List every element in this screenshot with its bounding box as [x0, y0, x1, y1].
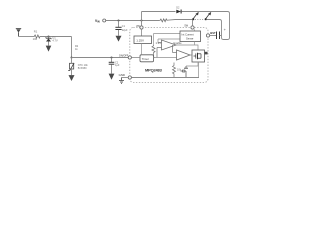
node A: [48, 36, 50, 38]
resistor R internal: [152, 45, 155, 58]
input terminal J1: [16, 29, 21, 37]
wire to switch: [168, 19, 193, 22]
block current sense: [180, 30, 201, 46]
pin EN P4: [128, 56, 131, 59]
svg-text:MPQ2483: MPQ2483: [145, 68, 163, 73]
capacitor C2: [109, 58, 115, 74]
wire LDO to Timer: [141, 44, 143, 55]
block 1.25V LDO: [134, 30, 152, 44]
svg-text:1.25V: 1.25V: [136, 39, 144, 43]
switch S1 blade: [192, 12, 199, 20]
svg-text:Timer: Timer: [142, 57, 149, 61]
svg-text:SW: SW: [184, 25, 189, 28]
node C: [111, 57, 113, 59]
wire Timer to op-amp U1B: [154, 57, 177, 59]
svg-text:Sense: Sense: [186, 37, 194, 41]
wire EN to Timer: [132, 57, 141, 59]
wire top rail right + load loop: [181, 12, 229, 40]
svg-text:GND: GND: [119, 73, 125, 77]
svg-text:VIN: VIN: [95, 19, 100, 23]
op-amp U1B: [173, 45, 191, 60]
svg-text:22µF: 22µF: [122, 29, 128, 32]
wire internal ground rail: [132, 77, 200, 79]
wire gate box to output stage: [186, 62, 198, 66]
wire op-amp U1A output: [176, 45, 198, 50]
wire vertical VIN to top rail and pin: [141, 12, 143, 26]
svg-text:1µF: 1µF: [115, 64, 120, 67]
svg-text:1k: 1k: [75, 48, 78, 51]
wire corner to vertical branch: [71, 37, 73, 58]
terminal VIN: [103, 19, 106, 22]
arrow to negative rail (below C2): [109, 74, 115, 80]
switch S2 blade: [205, 12, 212, 20]
pin GND P5: [128, 76, 131, 79]
block gate driver with MOSFET: [192, 50, 205, 62]
svg-text:4.7V: 4.7V: [52, 38, 58, 42]
wire internal sense lines: [154, 33, 181, 35]
wire input rail: [19, 36, 34, 38]
ground symbol: [119, 78, 128, 84]
svg-text:100: 100: [33, 37, 38, 41]
node D: [118, 20, 120, 22]
resistor R internal 2: [173, 63, 176, 78]
arrow to negative rail (below D2): [69, 75, 75, 81]
op-amp U1A: [157, 40, 176, 58]
svg-text:ON/OFF: ON/OFF: [119, 54, 129, 57]
svg-text:C1: C1: [122, 25, 126, 28]
wire op-amp U1B output: [190, 54, 192, 56]
svg-text:B=3950: B=3950: [78, 67, 87, 70]
node F: [153, 57, 155, 59]
zener D1: [46, 37, 52, 46]
diode D3: [176, 10, 181, 14]
resistor R2: [159, 19, 167, 22]
svg-text:Enable: Enable: [174, 41, 183, 45]
wire switch to pin P2: [192, 20, 194, 26]
pin VIN P1: [140, 26, 143, 29]
svg-text:1.2V: 1.2V: [156, 41, 162, 45]
arrow to negative rail (below D1): [46, 46, 52, 52]
pin SW P2: [191, 26, 194, 29]
svg-text:D2: D2: [176, 7, 180, 10]
capacitor CB: [210, 32, 222, 40]
svg-text:+: +: [224, 27, 227, 32]
arrow to negative rail (below C1): [116, 36, 122, 42]
svg-text:Int Current: Int Current: [182, 32, 195, 36]
wire EN/UVLO run: [72, 57, 129, 59]
node E: [141, 20, 143, 22]
svg-text:BST: BST: [210, 31, 216, 35]
mechanical link (dotted): [195, 19, 204, 21]
pin stub dark mark: [205, 52, 208, 55]
wire: [41, 36, 72, 38]
pin BST P3: [206, 34, 209, 37]
resistor R1: [34, 35, 41, 38]
zener D2 (NTC branch): [68, 58, 74, 76]
transistor Q1: [181, 66, 189, 78]
wire top rail: [142, 11, 176, 13]
IC dashed outline U1: [130, 28, 208, 83]
wire VIN rail: [106, 20, 160, 22]
block Timer: [140, 55, 154, 62]
svg-text:R1: R1: [34, 29, 38, 33]
capacitor C1: [115, 21, 121, 36]
node B: [71, 57, 73, 59]
